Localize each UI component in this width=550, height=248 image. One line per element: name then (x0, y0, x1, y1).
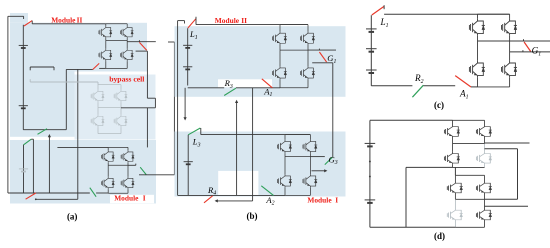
svg-text:(b): (b) (247, 211, 258, 221)
svg-text:Module: Module (114, 193, 139, 202)
svg-text:(a): (a) (67, 212, 78, 222)
svg-text:(c): (c) (434, 100, 444, 110)
svg-text:I: I (143, 193, 146, 202)
svg-text:II: II (77, 15, 83, 24)
svg-text:I: I (335, 195, 338, 204)
svg-text:Module: Module (215, 16, 240, 25)
svg-text:Module: Module (307, 195, 332, 204)
svg-text:Module: Module (51, 15, 76, 24)
svg-text:II: II (241, 16, 247, 25)
svg-text:bypass cell: bypass cell (109, 75, 144, 84)
svg-text:(d): (d) (434, 231, 445, 241)
